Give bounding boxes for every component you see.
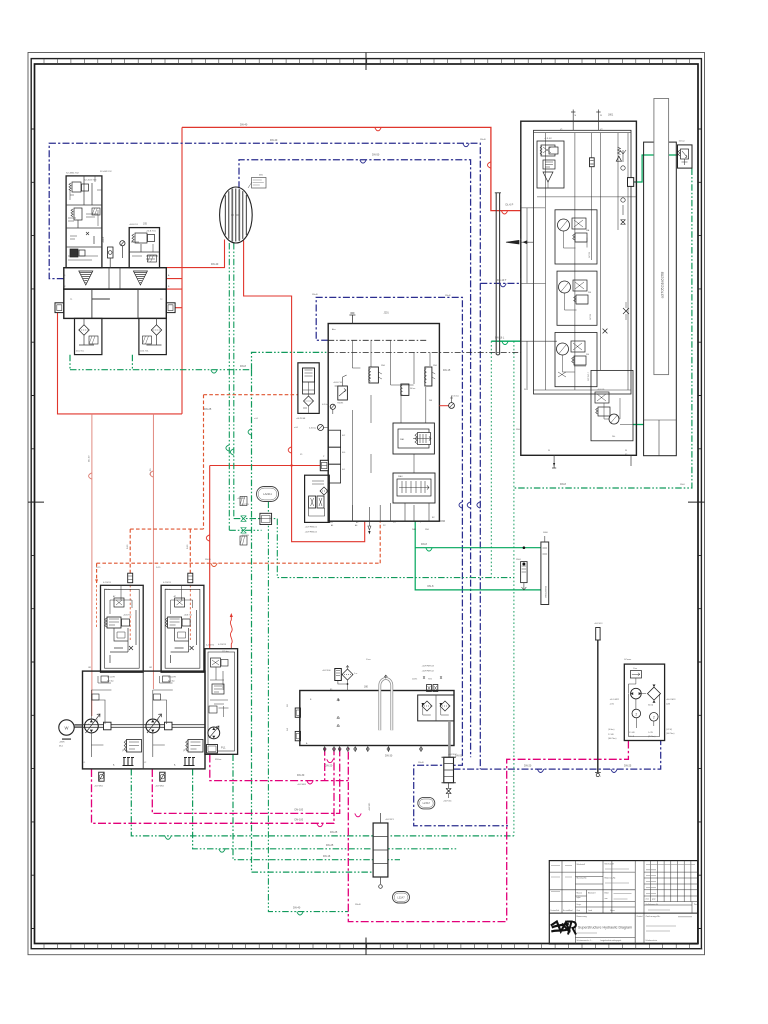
svg-text:3/8: 3/8 <box>287 704 289 707</box>
svg-text:30 bar: 30 bar <box>410 387 416 390</box>
svg-text:Blattzahl: Blattzahl <box>588 892 596 895</box>
svg-text:+6LB.Y01: +6LB.Y01 <box>146 231 156 233</box>
svg-text:24h: 24h <box>612 436 615 438</box>
power pack relief <box>630 671 641 678</box>
pump housing main block <box>83 671 206 769</box>
svg-text:10 bar: 10 bar <box>679 140 685 143</box>
regulator1 internals <box>110 585 132 614</box>
small sensor box <box>108 247 114 258</box>
tank internal level marks <box>337 699 340 726</box>
L23A7 tag <box>418 797 435 809</box>
svg-text:DN-100: DN-100 <box>295 809 304 812</box>
svg-text:11 L/R: 11 L/R <box>629 736 635 738</box>
power pack motor circles <box>632 709 641 718</box>
svg-text:320 bar: 320 bar <box>107 681 114 683</box>
title block outline <box>549 861 697 944</box>
accumulator 2 <box>401 384 409 395</box>
svg-text:6T80x038WS01: 6T80x038WS01 <box>546 586 548 598</box>
pump unit A inner valves <box>66 176 102 247</box>
accumulator 3 <box>425 367 432 386</box>
bottom left filter box <box>305 475 330 522</box>
svg-text:+6LO.M23: +6LO.M23 <box>666 699 676 701</box>
power pack filter diamond <box>648 687 661 700</box>
svg-text:+3.8.J05: +3.8.J05 <box>597 389 604 391</box>
wire: teal cooler drain pair <box>229 243 234 530</box>
svg-text:W: W <box>600 115 602 117</box>
svg-text:(1.2 W): (1.2 W) <box>666 729 672 731</box>
svg-text:+6LP.SP1: +6LP.SP1 <box>385 819 395 821</box>
svg-text:J82: J82 <box>149 667 152 669</box>
svg-text:PL1: PL1 <box>221 746 226 750</box>
wire: teal drain pump2 <box>193 769 457 849</box>
svg-text:330 bar: 330 bar <box>104 589 111 591</box>
inlet connector <box>320 460 328 470</box>
svg-text:DN6: DN6 <box>440 520 446 523</box>
svg-text:Material-Nr.: Material-Nr. <box>577 877 588 880</box>
accumulator 1 <box>369 367 378 383</box>
two small boxes above <box>427 685 432 692</box>
svg-text:42.5/278: 42.5/278 <box>107 677 116 679</box>
wire: green L port feed <box>491 340 521 342</box>
svg-text:Akw: Akw <box>332 328 336 331</box>
svg-text:W: W <box>65 726 69 731</box>
svg-text:DN-25: DN-25 <box>330 831 338 834</box>
wire: green link to relief valve 10bar <box>634 155 678 182</box>
cooler core lines <box>225 189 246 242</box>
wire: magenta suction pump1 DN-100 <box>92 748 335 824</box>
svg-text:DN-100: DN-100 <box>295 819 304 822</box>
tank breather filter <box>335 669 342 681</box>
arrow marker mid right <box>506 240 519 244</box>
manifold side port right <box>166 303 175 313</box>
svg-text:2: 2 <box>635 712 637 716</box>
orifice block <box>260 513 272 524</box>
svg-text:1.4 W: 1.4 W <box>648 732 653 734</box>
svg-text:1.05 bar: 1.05 bar <box>452 395 459 398</box>
J801 valve group 5 <box>591 370 633 440</box>
svg-text:DN-10 T: DN-10 T <box>497 279 507 282</box>
svg-text:A7: A7 <box>174 595 176 598</box>
svg-text:J460: J460 <box>543 532 549 534</box>
svg-text:+6LB.P: +6LB.P <box>103 236 105 243</box>
tank suction U pipe <box>380 679 392 731</box>
svg-text:G2T.25: G2T.25 <box>589 252 591 258</box>
pump unit A extra detail <box>68 176 102 260</box>
svg-text:Urheberschutz: Urheberschutz <box>646 939 658 942</box>
svg-text:DN-8: DN-8 <box>240 365 246 368</box>
oil cooler fan ellipse <box>220 187 253 243</box>
svg-text:Land: Land <box>588 910 592 912</box>
svg-text:+6LP.M03: +6LP.M03 <box>297 784 307 786</box>
emergency power pack outline <box>624 664 664 740</box>
svg-text:gepr: gepr <box>652 898 656 901</box>
cylinder frame rectangle <box>644 142 677 456</box>
svg-text:(100 7bar): (100 7bar) <box>666 733 675 735</box>
svg-text:Benennung: Benennung <box>577 916 587 918</box>
svg-text:+6LP.FM7.03: +6LP.FM7.03 <box>422 666 435 668</box>
svg-text:kg/m: kg/m <box>577 897 582 899</box>
wire: red pressure main from pump unit A to valve block P port <box>182 127 521 210</box>
svg-text:DN-40: DN-40 <box>312 294 319 296</box>
svg-text:320 bar: 320 bar <box>215 758 222 761</box>
J801 check valves right column <box>620 150 626 215</box>
wire: blue tank return header bottom <box>454 741 661 770</box>
svg-text:+6LP.011: +6LP.011 <box>443 801 452 803</box>
relief valve 10 bar <box>678 145 693 168</box>
wire: red flexible hose to PL1 <box>230 615 232 648</box>
svg-text:4-2107/6: 4-2107/6 <box>163 582 172 584</box>
svg-text:J05: J05 <box>143 223 148 226</box>
svg-text:S2+6M2.Y02: S2+6M2.Y02 <box>66 173 79 175</box>
svg-text:Freimaßtol.: Freimaßtol. <box>551 909 561 912</box>
title block right mini table <box>644 861 698 902</box>
svg-text:DN-8: DN-8 <box>560 483 566 486</box>
pump unit A outline (tall block) <box>66 176 102 268</box>
manifold upper band <box>64 268 167 289</box>
svg-text:Name: Name <box>610 910 615 912</box>
svg-text:5.5 kW: 5.5 kW <box>629 732 635 734</box>
wire: red drop to pump 2 <box>152 414 154 689</box>
svg-text:100%: 100% <box>412 679 417 681</box>
gauge small at line <box>330 404 335 409</box>
svg-text:DN-30: DN-30 <box>385 755 393 758</box>
wire: magenta suction pump2 DN-100 <box>152 748 339 814</box>
J801 top pins <box>571 110 601 131</box>
J801 valve group 2 <box>555 210 597 264</box>
svg-text:+6LP.M5: +6LP.M5 <box>237 498 246 500</box>
svg-text:330 bar: 330 bar <box>165 589 172 591</box>
manifold filter cone left <box>79 271 93 285</box>
svg-text:WA1: WA1 <box>412 528 416 531</box>
wire: orange pilot line lower <box>97 521 381 583</box>
J801 orifice symbol <box>590 158 595 167</box>
drawing frame band <box>31 59 701 949</box>
svg-text:P Fu: P Fu <box>123 750 129 753</box>
svg-text:DN-25: DN-25 <box>204 408 212 411</box>
svg-text:L32A7: L32A7 <box>397 896 405 899</box>
svg-text:DN6: DN6 <box>381 365 385 367</box>
svg-text:4-2107/6: 4-2107/6 <box>206 645 215 647</box>
svg-text:Zeichnungs-Nr.: Zeichnungs-Nr. <box>646 915 661 918</box>
wire: teal relief valve return right side <box>514 169 692 489</box>
wire: red riser at pump unit A <box>58 127 183 414</box>
J201 top pin <box>349 313 355 324</box>
wire: red cooler return to manifold and PL1 <box>210 241 365 649</box>
solenoid valve WA1 <box>393 423 434 454</box>
J801 shear valve mid <box>623 308 629 314</box>
title block bottom: logo cell <box>575 913 644 944</box>
svg-text:Ers und Ausf: Ers und Ausf <box>563 909 573 912</box>
svg-text:(Vent): (Vent) <box>648 704 653 707</box>
J801 spring check top <box>618 147 621 155</box>
svg-text:DN6: DN6 <box>433 365 437 367</box>
tank drain to return filter <box>448 721 451 757</box>
svg-text:0.45 bar: 0.45 bar <box>309 428 317 430</box>
drive shaft <box>75 725 206 728</box>
drain plugs <box>99 772 104 781</box>
P2 sub circuits <box>153 676 173 724</box>
svg-text:+6LP.M5: +6LP.M5 <box>241 504 250 506</box>
svg-text:+6LP.FM5.01: +6LP.FM5.01 <box>305 527 318 529</box>
svg-text:0.05 bar: 0.05 bar <box>322 403 329 406</box>
svg-text:+6LB.Y13: +6LB.Y13 <box>123 615 131 617</box>
PL1 pump block <box>205 649 238 755</box>
filter +6LP.F08 <box>298 363 319 414</box>
wire: red cooler feed <box>150 240 225 268</box>
svg-text:4-2107/8: 4-2107/8 <box>218 644 227 646</box>
svg-text:DN-16: DN-16 <box>323 855 331 858</box>
J201 internal verticals <box>352 340 430 521</box>
svg-text:Masse: Masse <box>577 893 583 895</box>
svg-text:DN-40: DN-40 <box>418 762 425 764</box>
svg-text:+6LB.Y16: +6LB.Y16 <box>333 382 343 384</box>
svg-text:DN-20: DN-20 <box>524 764 532 767</box>
junction: red node at manifold tee <box>290 464 292 466</box>
PL1 internals <box>211 658 221 667</box>
svg-text:(10 bar): (10 bar) <box>608 729 615 731</box>
measuring combs P Fu <box>123 758 135 766</box>
J801 valve group 1 <box>537 141 564 188</box>
svg-text:von: von <box>605 898 608 900</box>
svg-text:Zust: Zust <box>577 909 581 912</box>
wire: green sensor lines at J460 <box>415 521 541 590</box>
pump P2 <box>146 719 160 733</box>
title block grid <box>549 912 697 914</box>
J801 bottom pins <box>552 455 631 468</box>
svg-text:+3.8.J02: +3.8.J02 <box>544 138 553 140</box>
wire: magenta suction PL1 <box>210 755 348 781</box>
wire: magenta tank stub <box>324 748 326 781</box>
svg-text:175 bar: 175 bar <box>222 651 229 653</box>
svg-text:J81: J81 <box>88 667 91 669</box>
svg-text:G2T.25: G2T.25 <box>590 314 592 320</box>
svg-text:DN-40: DN-40 <box>270 139 278 142</box>
svg-text:320 bar: 320 bar <box>168 681 175 683</box>
svg-text:P Fu: P Fu <box>184 750 190 753</box>
svg-text:+6LO.M22: +6LO.M22 <box>610 699 620 701</box>
svg-text:6L1: 6L1 <box>342 469 345 471</box>
LA2211 tag <box>257 487 279 502</box>
svg-text:DN-40: DN-40 <box>211 263 219 266</box>
svg-text:+6MR: +6MR <box>59 742 65 744</box>
svg-text:42.5/278: 42.5/278 <box>168 677 177 679</box>
company logo scribble <box>551 922 570 932</box>
pilot valve box J05 <box>129 228 159 268</box>
regulator block pump2 <box>161 585 204 672</box>
svg-text:DN-15: DN-15 <box>443 369 451 372</box>
svg-text:6L0: 6L0 <box>342 452 345 454</box>
faint table text rows in title block <box>551 865 695 934</box>
J801 internal rails <box>534 132 637 390</box>
wire: teal drain pump1 <box>131 769 514 836</box>
svg-text:(25 7bar): (25 7bar) <box>648 736 656 738</box>
shut-off valve +6LP.011 <box>448 783 450 788</box>
sampling valves with hatching <box>240 497 247 506</box>
gauge 0.4bar <box>318 425 324 431</box>
svg-text:2: 2 <box>653 716 655 720</box>
svg-text:DN-25: DN-25 <box>205 559 212 561</box>
svg-text:100L TDL: 100L TDL <box>76 351 86 353</box>
J801 internal port lines <box>521 208 557 390</box>
wire: teal drain PL1 <box>233 755 400 860</box>
svg-text:+6LP.FM5.02: +6LP.FM5.02 <box>305 532 318 534</box>
svg-text:DN-40: DN-40 <box>293 907 301 910</box>
svg-text:TSDR3: TSDR3 <box>337 403 343 405</box>
svg-text:+6LP.M02: +6LP.M02 <box>155 786 165 788</box>
inline sensor <box>521 562 528 583</box>
J460 sensor column <box>541 542 549 605</box>
svg-text:a37052da6268: a37052da6268 <box>660 271 665 298</box>
svg-text:+6LP.M01: +6LP.M01 <box>94 786 104 788</box>
left port ladder <box>328 430 340 447</box>
wire: teal gauge line upper <box>229 519 277 531</box>
svg-text:Werkstoff: Werkstoff <box>605 863 615 866</box>
pressure reducing valve Y16 <box>338 386 348 400</box>
svg-text:1 bar: 1 bar <box>633 668 637 670</box>
J201 internal dash-dot rails <box>328 339 427 341</box>
regulator2 internals <box>171 585 193 614</box>
drawing frame inner border <box>35 64 699 944</box>
gauge port M-P1 right side <box>439 405 448 407</box>
svg-text:L23A7: L23A7 <box>423 802 431 805</box>
manifold side port left <box>55 303 64 313</box>
oil tank J80 outline <box>300 691 454 746</box>
svg-text:DN-20: DN-20 <box>325 764 333 767</box>
check valve symbols bottom <box>352 503 429 521</box>
wire: green stub valve block bottom <box>633 424 644 426</box>
gauge at manifold <box>120 241 125 246</box>
wire: teal line to measuring points <box>277 519 514 578</box>
motor M <box>59 720 74 735</box>
wire: red suction drop lines to pumps P1 P2 <box>91 414 93 716</box>
regulator block pump1 <box>101 585 144 672</box>
svg-text:Zust: Zust <box>646 898 650 901</box>
arrowheads orange <box>95 579 192 583</box>
svg-text:1 m: 1 m <box>354 673 358 675</box>
tank bottom port fittings <box>325 746 421 753</box>
svg-text:DN-8: DN-8 <box>421 543 427 546</box>
accumulator bottom centre <box>373 823 388 877</box>
svg-text:Pos: Pos <box>694 904 697 906</box>
frame ruler ticks <box>44 59 690 949</box>
J801 valve group 4 <box>555 333 597 387</box>
wire: blue stub to valve block T port <box>480 282 521 284</box>
svg-text:4-2107/6: 4-2107/6 <box>103 582 112 584</box>
svg-text:J80: J80 <box>364 686 369 689</box>
svg-text:J-Power: J-Power <box>624 659 632 661</box>
wire: magenta suction header loop <box>348 741 628 922</box>
svg-text:W: W <box>625 450 627 452</box>
svg-text:+6LP.F07: +6LP.F07 <box>448 754 457 756</box>
svg-text:DL-6 P: DL-6 P <box>506 203 514 206</box>
P1 sub circuits <box>91 676 111 724</box>
pipe fittings on orange lines <box>128 573 133 583</box>
wire: teal long drop line <box>252 370 388 872</box>
power pack pump circle <box>631 688 642 699</box>
solenoid valve WAU <box>393 473 435 503</box>
wire: orange pilot line to filter <box>130 395 298 583</box>
pump P1 <box>85 719 99 733</box>
svg-text:W: W <box>524 389 526 391</box>
frame centre marks <box>28 53 705 955</box>
svg-text:+6LP.FM7.02: +6LP.FM7.02 <box>422 671 435 673</box>
J801 inner frame <box>534 130 632 394</box>
svg-text:Urspr.: Urspr. <box>577 904 582 906</box>
svg-text:+6LP.SP1: +6LP.SP1 <box>369 803 371 811</box>
manifold lower band <box>64 289 167 318</box>
svg-text:DN-50: DN-50 <box>372 154 380 157</box>
svg-text:J201: J201 <box>384 312 390 315</box>
filter block bottom left <box>75 318 102 354</box>
jog break symbols on main lines <box>375 127 381 130</box>
svg-text:DN-8: DN-8 <box>428 585 434 588</box>
svg-text:6L2: 6L2 <box>342 435 345 437</box>
wire: orange dashes inside pump blocks <box>97 585 191 640</box>
svg-text:DN-30: DN-30 <box>297 774 305 777</box>
svg-text:+6LP.F06: +6LP.F06 <box>322 670 331 672</box>
standpipe level gauge <box>597 640 599 773</box>
svg-text:WAU: WAU <box>398 475 403 478</box>
wire: blue control block return <box>316 297 508 825</box>
telescopic cylinder tall bar <box>654 99 669 375</box>
svg-text:Langjahresliste-auftragsgeb.: Langjahresliste-auftragsgeb. <box>600 939 622 942</box>
svg-text:DN6: DN6 <box>425 529 429 531</box>
valve block J801 outline <box>521 121 637 455</box>
filter block bottom right <box>139 318 166 354</box>
svg-text:100L TDL: 100L TDL <box>140 351 150 353</box>
svg-text:J801: J801 <box>608 114 614 117</box>
svg-text:A7: A7 <box>113 595 115 598</box>
control manifold J201 outline <box>328 324 439 522</box>
sheet outer border <box>28 53 705 955</box>
svg-text:Dia 30: Dia 30 <box>89 455 91 462</box>
svg-text:DN-40: DN-40 <box>355 904 362 906</box>
svg-text:+6LP.F08: +6LP.F08 <box>296 418 306 420</box>
svg-text:Werkstoff: Werkstoff <box>577 863 586 866</box>
svg-text:DN-40: DN-40 <box>240 123 248 126</box>
svg-text:Zusätzl.: Zusätzl. <box>637 915 644 918</box>
svg-text:+6LP.013: +6LP.013 <box>594 623 603 625</box>
J801 port box with green <box>628 178 634 187</box>
L32A7 tag <box>393 892 410 904</box>
wire: teal leak line from pump unit A <box>70 352 328 369</box>
svg-text:+6LB.Y01: +6LB.Y01 <box>129 224 139 226</box>
return filter column <box>444 757 454 782</box>
svg-text:DN-25: DN-25 <box>624 764 632 767</box>
svg-text:Gußtoleranz-Nr.: Gußtoleranz-Nr. <box>646 903 659 906</box>
manifold filter cone right <box>133 271 147 285</box>
svg-text:DN-40: DN-40 <box>480 139 487 141</box>
svg-text:DN-40: DN-40 <box>445 295 452 297</box>
tank left ports <box>295 708 300 717</box>
svg-text:+6LB.Y12: +6LB.Y12 <box>184 615 192 617</box>
wire: teal drain from LA2211 <box>268 502 348 912</box>
svg-text:3/4: 3/4 <box>287 728 289 731</box>
tank return filter compartment <box>418 695 454 721</box>
svg-text:Blatt: Blatt <box>605 892 609 895</box>
svg-text:LA2211: LA2211 <box>263 492 272 496</box>
svg-text:75%: 75% <box>428 679 432 681</box>
svg-text:S2+6M2.Y02: S2+6M2.Y02 <box>100 171 113 173</box>
svg-text:Superstructure Hydraulic Diagr: Superstructure Hydraulic Diagram <box>578 926 632 930</box>
J801 valve group 3 <box>557 271 597 325</box>
frame zone ticks <box>31 129 701 929</box>
svg-text:DN-25: DN-25 <box>326 844 334 847</box>
svg-text:1 bar: 1 bar <box>366 659 371 661</box>
svg-text:A1: A1 <box>331 524 333 527</box>
riser bar (steel pipe) <box>496 193 499 355</box>
wire: green dotted drop from L port <box>491 341 514 836</box>
